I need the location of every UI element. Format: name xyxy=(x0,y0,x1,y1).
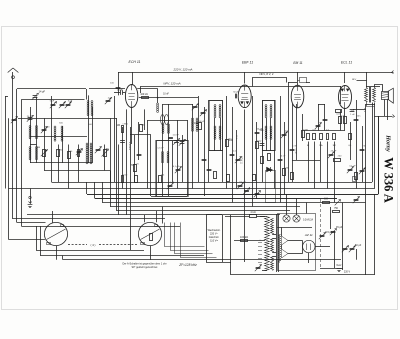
svg-text:5 nF: 5 nF xyxy=(170,182,175,184)
svg-text:Der A-Schalter ist gegenüber d: Der A-Schalter ist gegenüber dem 1 uhr xyxy=(122,263,166,266)
svg-text:4 kΩ: 4 kΩ xyxy=(250,211,255,214)
svg-text:NFV, 120 mA: NFV, 120 mA xyxy=(163,82,180,86)
svg-text:1M: 1M xyxy=(332,145,335,147)
svg-text:6,8 MHz: 6,8 MHz xyxy=(128,142,130,150)
svg-text:NFV: NFV xyxy=(352,79,357,81)
svg-text:14 pF: 14 pF xyxy=(39,90,46,94)
svg-text:220 V, 120 mA: 220 V, 120 mA xyxy=(173,68,193,72)
svg-text:2 pF: 2 pF xyxy=(108,98,113,100)
svg-text:0,1 μF: 0,1 μF xyxy=(173,166,180,168)
svg-text:Horny: Horny xyxy=(385,134,392,152)
svg-text:110 V=: 110 V= xyxy=(210,240,218,243)
svg-text:1,5 nF: 1,5 nF xyxy=(157,148,164,150)
svg-text:50 pF: 50 pF xyxy=(257,129,263,131)
svg-text:2 kΩ: 2 kΩ xyxy=(257,141,262,143)
svg-text:1,5 nF: 1,5 nF xyxy=(173,135,180,137)
svg-text:Netz: Netz xyxy=(337,264,343,267)
svg-text:100 kΩ: 100 kΩ xyxy=(140,94,148,96)
svg-text:50 μF: 50 μF xyxy=(355,244,362,247)
svg-text:W 336 A: W 336 A xyxy=(382,157,396,203)
svg-text:ECL 11: ECL 11 xyxy=(341,61,352,65)
svg-text:0,1 μF: 0,1 μF xyxy=(349,166,356,168)
svg-text:1 MΩ: 1 MΩ xyxy=(303,130,309,132)
svg-text:10 nF: 10 nF xyxy=(280,156,286,158)
svg-text:ZF=128 kHz: ZF=128 kHz xyxy=(178,263,197,267)
svg-text:90° gedreht gezeichnet: 90° gedreht gezeichnet xyxy=(132,266,158,269)
svg-text:25 μF: 25 μF xyxy=(331,151,337,153)
svg-text:ECH 11: ECH 11 xyxy=(129,60,141,64)
svg-text:1 MΩ: 1 MΩ xyxy=(122,124,128,126)
svg-text:1M: 1M xyxy=(37,147,40,149)
svg-text:NFV, 8 V, 2: NFV, 8 V, 2 xyxy=(260,72,274,76)
svg-text:1 MΩ: 1 MΩ xyxy=(284,168,290,170)
svg-text:AZ 11: AZ 11 xyxy=(304,233,313,237)
svg-text:1M: 1M xyxy=(117,124,120,127)
svg-text:45 μF: 45 μF xyxy=(336,226,343,229)
svg-text:0,2A/0,2A: 0,2A/0,2A xyxy=(303,219,314,222)
svg-text:EM 11: EM 11 xyxy=(293,61,302,65)
svg-text:ECH 11: ECH 11 xyxy=(240,156,242,165)
svg-text:5 nF: 5 nF xyxy=(292,146,297,148)
svg-text:1 kΩ: 1 kΩ xyxy=(123,175,128,177)
svg-text:50 pF: 50 pF xyxy=(117,89,123,91)
svg-text:1 MΩ: 1 MΩ xyxy=(57,150,63,152)
svg-text:0,1 μF: 0,1 μF xyxy=(239,182,246,184)
svg-text:0,5 M: 0,5 M xyxy=(295,148,297,153)
svg-text:( 4 ): ( 4 ) xyxy=(91,243,96,247)
svg-text:5 pF: 5 pF xyxy=(50,101,55,103)
svg-text:0000: 0000 xyxy=(45,127,51,129)
svg-text:10 nF: 10 nF xyxy=(163,94,169,96)
svg-text:EBF 11: EBF 11 xyxy=(242,61,253,65)
svg-text:50 pF: 50 pF xyxy=(233,92,239,94)
svg-text:4M: 4M xyxy=(105,149,108,151)
svg-text:100 kΩ: 100 kΩ xyxy=(240,236,248,239)
svg-text:1 nF: 1 nF xyxy=(350,114,355,116)
svg-text:220 V: 220 V xyxy=(344,271,351,274)
svg-text:10 kΩ: 10 kΩ xyxy=(199,121,205,123)
svg-text:3 pF: 3 pF xyxy=(68,101,73,103)
